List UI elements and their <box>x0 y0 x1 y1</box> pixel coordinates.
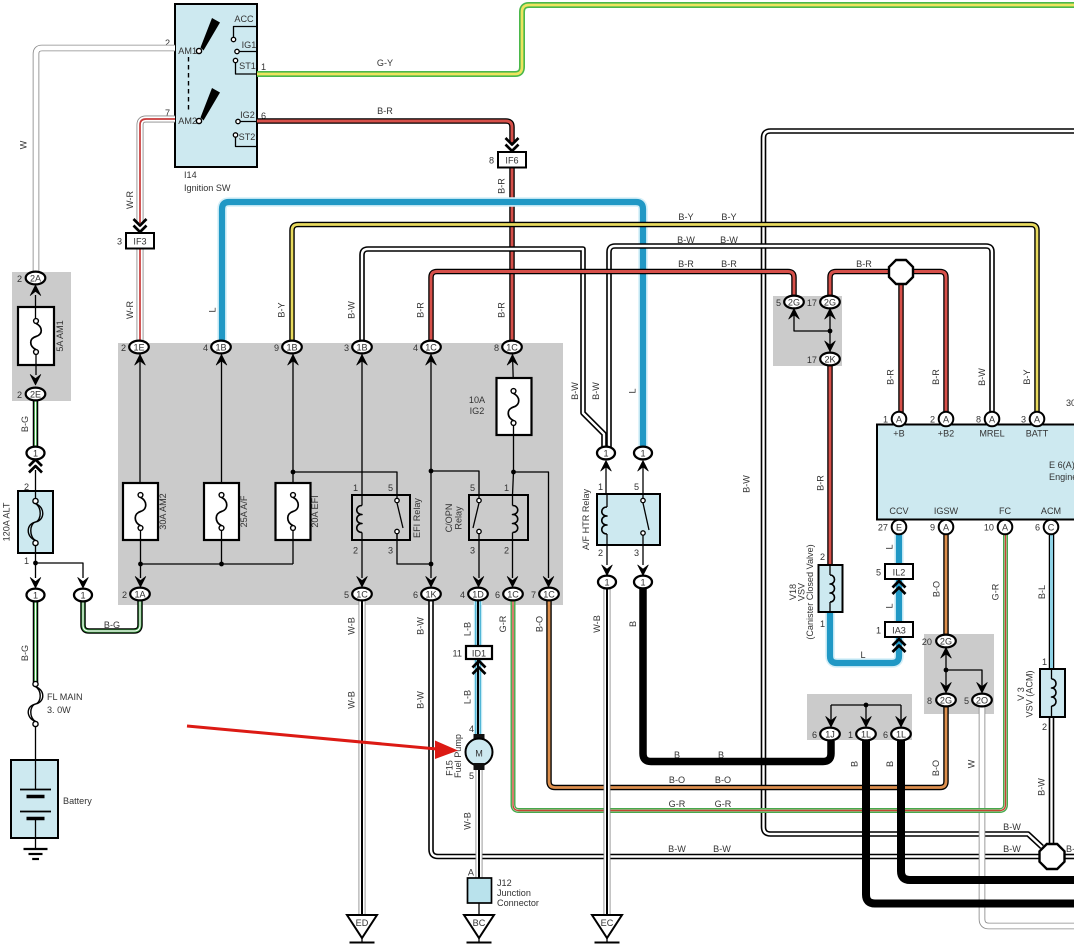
svg-text:2K: 2K <box>824 354 835 364</box>
svg-text:5A AM1: 5A AM1 <box>55 320 65 351</box>
svg-text:B-W: B-W <box>1003 822 1021 832</box>
J/B internal wire 1B to fuse 20A EFI <box>288 354 299 493</box>
svg-text:W: W <box>19 140 29 149</box>
svg-text:B-W: B-W <box>347 301 357 319</box>
svg-text:25A A/F: 25A A/F <box>239 495 249 527</box>
svg-text:EC: EC <box>601 918 614 928</box>
svg-text:3. 0W: 3. 0W <box>47 705 71 715</box>
svg-text:B-G: B-G <box>20 416 30 432</box>
svg-text:A: A <box>1002 522 1009 532</box>
svg-text:1: 1 <box>603 448 608 458</box>
svg-text:E 6(A),: E 6(A), <box>1049 460 1074 470</box>
svg-text:ST1: ST1 <box>239 61 256 71</box>
switch wiper AM2-IG2 <box>201 88 221 121</box>
wire B-O ECM IGSW to 20(2G) <box>943 534 949 635</box>
svg-text:3: 3 <box>634 548 639 558</box>
svg-text:B: B <box>674 750 680 760</box>
svg-text:30A AM2: 30A AM2 <box>158 493 168 529</box>
connector 1L pin 6 <box>883 728 911 741</box>
ECM pin FC 10(A) <box>984 520 1012 535</box>
svg-text:B-W: B-W <box>742 475 752 493</box>
connector panel 2G/2K <box>773 296 842 366</box>
svg-text:1C: 1C <box>543 589 555 599</box>
svg-text:(Canister Closed Valve): (Canister Closed Valve) <box>805 544 815 639</box>
fusible link FL MAIN 3.0W <box>28 681 82 760</box>
svg-text:B-W: B-W <box>570 382 580 400</box>
connector 1D pin 4 <box>460 588 488 601</box>
svg-text:1: 1 <box>604 577 609 587</box>
J/B internal wire 1E to fuse 30A AM2 <box>135 354 146 493</box>
svg-text:2: 2 <box>1042 722 1047 732</box>
svg-text:Engine Cont: Engine Cont <box>1049 472 1074 482</box>
svg-text:B-W: B-W <box>713 844 731 854</box>
connector 2O pin 5 <box>964 694 992 707</box>
wire B from 1(1L) to right edge <box>866 740 1074 904</box>
svg-text:BC: BC <box>473 918 486 928</box>
svg-text:5: 5 <box>470 483 475 493</box>
svg-text:ED: ED <box>356 918 369 928</box>
contact IG1 <box>235 40 257 54</box>
svg-text:B-R: B-R <box>931 369 941 385</box>
svg-text:4: 4 <box>460 590 465 600</box>
svg-text:5: 5 <box>776 298 781 308</box>
wire B-W from 6(1K) to junction octagon <box>431 600 1040 857</box>
wire B-R ignition IG2 to IF6 <box>257 121 512 143</box>
fusible link 120A ALT <box>2 482 54 566</box>
svg-text:4: 4 <box>413 343 418 353</box>
connector 1B pin 4 <box>203 341 231 354</box>
J/B internal wire EFI coil pin 1 from 3(1B) <box>357 354 368 495</box>
svg-text:2: 2 <box>820 552 825 562</box>
A/F relay pin 3 to joint 1 <box>638 545 649 576</box>
svg-text:A: A <box>896 414 903 424</box>
svg-text:A: A <box>468 868 475 878</box>
svg-text:5: 5 <box>964 696 969 706</box>
svg-text:Battery: Battery <box>63 796 92 806</box>
wire B-R noise filter to ECM +B2 <box>913 272 947 413</box>
wire W-R IF3 to 1E <box>137 248 144 341</box>
svg-text:1C: 1C <box>507 589 519 599</box>
svg-text:IL2: IL2 <box>893 568 906 578</box>
svg-text:6: 6 <box>413 590 418 600</box>
svg-text:1C: 1C <box>425 342 437 352</box>
junction connector ID1 pin 11 <box>453 646 492 674</box>
svg-text:FL MAIN: FL MAIN <box>47 692 83 702</box>
fuse 5A AM1 <box>18 295 65 385</box>
svg-text:A: A <box>943 522 950 532</box>
svg-text:B-Y: B-Y <box>277 302 287 317</box>
svg-text:3: 3 <box>1021 415 1026 425</box>
J/B internal bus <box>141 563 294 565</box>
svg-text:ACC: ACC <box>234 14 254 24</box>
svg-text:8: 8 <box>489 156 494 166</box>
joint 1 to 1A <box>74 589 92 602</box>
svg-text:6: 6 <box>883 730 888 740</box>
ECM pin +B 1(A) <box>883 412 906 427</box>
svg-text:A: A <box>989 414 996 424</box>
C/OPN relay <box>444 483 528 556</box>
svg-text:3: 3 <box>388 546 393 556</box>
joint 1 to battery <box>27 589 45 602</box>
svg-text:1C: 1C <box>506 342 518 352</box>
J/B internal branch to 7(1C) <box>514 472 554 587</box>
svg-text:B-W: B-W <box>720 235 738 245</box>
A/F relay pin 2 to joint 1 <box>602 545 613 576</box>
wire B-W from right edge via vertical x763 to lower junction <box>764 131 1074 847</box>
svg-text:W-R: W-R <box>125 191 135 209</box>
J/B internal wire 8(1C) to fuse 10A IG2 <box>507 354 518 389</box>
connector 1A pin 2 <box>122 588 150 601</box>
joint 1 above 120A ALT <box>27 447 45 460</box>
svg-text:A/F HTR Relay: A/F HTR Relay <box>581 488 591 550</box>
svg-text:1L: 1L <box>896 729 906 739</box>
svg-text:B-G: B-G <box>20 645 30 661</box>
svg-text:2: 2 <box>122 590 127 600</box>
svg-text:2: 2 <box>17 274 22 284</box>
svg-text:C: C <box>1048 522 1055 532</box>
svg-text:G-R: G-R <box>715 799 732 809</box>
connector 1L pin 1 <box>848 728 876 741</box>
wire B-W from 3(1B) to A/F relay joint <box>362 249 604 448</box>
svg-text:1: 1 <box>883 415 888 425</box>
joint connector 1 (B-G) <box>29 460 42 492</box>
wire B-G 2E to joint 1 <box>33 400 39 448</box>
svg-text:10A: 10A <box>469 395 486 405</box>
svg-text:1B: 1B <box>286 342 297 352</box>
svg-text:B: B <box>718 750 724 760</box>
svg-text:B-Y: B-Y <box>678 212 693 222</box>
connector 1E pin 2 <box>121 341 149 354</box>
svg-text:B-R: B-R <box>377 106 393 116</box>
svg-text:G-R: G-R <box>991 583 1001 600</box>
wire B-W from ECM MREL to A/F relay joint <box>609 246 992 448</box>
svg-text:G-Y: G-Y <box>377 58 393 68</box>
wire L IL2 to IA3 <box>894 578 904 622</box>
svg-text:B-O: B-O <box>932 581 942 597</box>
wire B-R 17(2G) to noise filter <box>830 272 890 297</box>
wire G-Y from ST1 along top edge <box>257 5 1074 74</box>
svg-text:7: 7 <box>531 590 536 600</box>
svg-text:120A ALT: 120A ALT <box>2 502 12 541</box>
svg-text:B-O: B-O <box>535 616 545 632</box>
joint connector 1 B <box>634 576 652 589</box>
svg-text:4: 4 <box>203 343 208 353</box>
junction connector IA3 pin 1 <box>876 622 913 652</box>
svg-text:W-B: W-B <box>592 615 602 633</box>
svg-text:+B2: +B2 <box>938 429 954 439</box>
svg-text:L-B: L-B <box>463 690 473 704</box>
svg-text:B-W: B-W <box>591 382 601 400</box>
connector 2A pin 2 <box>30 285 41 296</box>
svg-text:L: L <box>860 650 865 660</box>
J/B internal branch to C/OPN relay pin 5 <box>431 471 479 496</box>
svg-text:2G: 2G <box>940 695 952 705</box>
wire L-B from ID1 to fuel pump pin 4 <box>474 658 482 736</box>
svg-text:1: 1 <box>504 483 509 493</box>
svg-text:1: 1 <box>598 482 603 492</box>
svg-text:1: 1 <box>261 62 266 72</box>
wire L IA3 to VSV V18 pin 1 <box>830 612 899 663</box>
svg-text:W-R: W-R <box>125 301 135 319</box>
svg-text:EFI Relay: EFI Relay <box>412 498 422 538</box>
ECM pin BATT 3(A) <box>1021 412 1044 427</box>
ground below battery <box>24 838 48 859</box>
svg-text:ST2: ST2 <box>239 132 256 142</box>
fuse 30A AM2 <box>123 483 168 540</box>
svg-text:4: 4 <box>469 724 474 734</box>
wire B-Y from 9(1B) to ECM BATT <box>292 225 1037 413</box>
svg-text:B-W: B-W <box>677 235 695 245</box>
svg-text:B-O: B-O <box>715 775 731 785</box>
connector 1B pin 3 <box>344 341 372 354</box>
junction connector IF6 pin 8 <box>489 138 526 168</box>
fuse 10A IG2 <box>469 378 532 435</box>
svg-text:B: B <box>850 761 860 767</box>
contact ACC <box>231 14 257 42</box>
junction connector IL2 pin 5 <box>876 564 913 594</box>
contact IG2 pin 6 <box>236 110 266 124</box>
connector 2G pin 8 <box>927 694 956 707</box>
wire B-O from 7(1C) to 8(2G) <box>549 600 946 788</box>
svg-text:1: 1 <box>33 448 38 458</box>
J/B internal wire fuse to 1A and bus <box>135 530 146 587</box>
ECM pin MREL 8(A) <box>976 412 999 427</box>
svg-text:I14: I14 <box>184 170 197 180</box>
ECM pin CCV 27(E) <box>878 520 906 535</box>
connector 1B pin 9 <box>274 341 302 354</box>
svg-text:2A: 2A <box>30 273 42 283</box>
svg-text:B-W: B-W <box>1066 844 1074 854</box>
svg-text:3: 3 <box>470 546 475 556</box>
svg-text:1: 1 <box>33 590 38 600</box>
svg-text:A: A <box>1034 414 1041 424</box>
svg-text:B-O: B-O <box>669 775 685 785</box>
svg-text:6: 6 <box>495 590 500 600</box>
connector 2G pin 5 <box>776 296 804 309</box>
wire L CCV to IL2 <box>894 534 904 564</box>
svg-text:Relay: Relay <box>454 506 464 530</box>
svg-text:1B: 1B <box>356 342 367 352</box>
svg-text:L: L <box>885 544 895 549</box>
switch wiper AM1-ACC <box>201 18 221 51</box>
svg-text:B-W: B-W <box>416 691 426 709</box>
svg-text:B-R: B-R <box>816 475 826 491</box>
svg-text:1L: 1L <box>861 729 871 739</box>
svg-text:ACM: ACM <box>1041 506 1061 516</box>
svg-text:FC: FC <box>999 506 1012 516</box>
svg-text:L-B: L-B <box>463 622 473 636</box>
svg-text:M: M <box>475 749 483 759</box>
svg-text:1: 1 <box>24 556 29 566</box>
svg-text:B: B <box>628 621 638 627</box>
connector 1C pin 7 <box>531 588 559 601</box>
svg-text:BATT: BATT <box>1026 429 1049 439</box>
svg-text:5: 5 <box>634 482 639 492</box>
svg-text:1: 1 <box>80 590 85 600</box>
wire L from 4(1B) to A/F HTR relay joint <box>222 202 643 448</box>
svg-text:2E: 2E <box>30 389 41 399</box>
2G/2K internal links <box>789 309 836 353</box>
J/B internal wire 1B to fuse 25A A/F <box>216 354 227 493</box>
svg-text:Ignition SW: Ignition SW <box>184 183 231 193</box>
wire B from A/F relay pin 3 to 6(1J) <box>643 588 831 762</box>
svg-text:8: 8 <box>494 343 499 353</box>
svg-text:1C: 1C <box>356 589 368 599</box>
fuse 5A AM1 gray panel <box>12 272 71 401</box>
ground EC <box>592 915 622 943</box>
svg-text:1: 1 <box>820 619 825 629</box>
svg-text:B-R: B-R <box>678 259 694 269</box>
svg-text:B-W: B-W <box>1037 778 1047 796</box>
svg-text:1B: 1B <box>215 342 226 352</box>
svg-text:B-R: B-R <box>497 302 507 318</box>
connector panel 2G/2O <box>924 634 994 714</box>
contact AM1 pin 2 <box>165 38 202 56</box>
joint connector 1 L <box>634 447 652 460</box>
VSV V18 Canister Closed Valve <box>788 544 843 639</box>
svg-text:2: 2 <box>598 548 603 558</box>
svg-text:5: 5 <box>388 483 393 493</box>
svg-text:5: 5 <box>469 771 474 781</box>
svg-text:10: 10 <box>984 523 994 533</box>
svg-text:9: 9 <box>274 343 279 353</box>
svg-text:G-R: G-R <box>669 799 686 809</box>
connector 1J pin 6 <box>812 728 840 741</box>
svg-text:B-R: B-R <box>497 178 507 194</box>
svg-text:30: 30 <box>1066 398 1074 408</box>
svg-text:2G: 2G <box>824 297 836 307</box>
contact ST1 pin 1 <box>233 58 266 74</box>
svg-text:B-L: B-L <box>1037 585 1047 599</box>
junction connector IF3 pin 3 <box>117 219 154 249</box>
svg-text:IGSW: IGSW <box>934 506 959 516</box>
wire B-G joint to FL MAIN <box>33 601 39 682</box>
connector panel 1J/1L <box>807 694 912 740</box>
svg-text:1: 1 <box>353 483 358 493</box>
wire B-R 17(2K) to VSV V18 pin 2 <box>827 365 833 565</box>
wire W-B fuel pump pin 5 to J12 <box>476 769 483 879</box>
wire B from 6(1L) to right edge <box>901 740 1074 880</box>
J/B internal wire 20A to bus <box>292 530 294 564</box>
svg-text:1K: 1K <box>425 589 436 599</box>
svg-text:VSV (ACM): VSV (ACM) <box>1025 671 1035 718</box>
svg-text:IG2: IG2 <box>470 406 485 416</box>
svg-text:L: L <box>885 603 895 608</box>
node below 120A ALT <box>30 553 88 588</box>
J/B internal branch to EFI relay pin 5 <box>293 472 397 496</box>
J/B internal wire C/OPN pin 3 to 4(1D) <box>473 540 484 587</box>
connector 2K pin 17 <box>807 353 840 366</box>
svg-text:27: 27 <box>878 523 888 533</box>
svg-text:2O: 2O <box>976 695 988 705</box>
svg-text:Junction: Junction <box>497 888 531 898</box>
svg-text:6: 6 <box>812 730 817 740</box>
svg-text:B-W: B-W <box>668 844 686 854</box>
svg-text:B-W: B-W <box>416 617 426 635</box>
svg-text:B-Y: B-Y <box>1022 369 1032 384</box>
svg-text:20: 20 <box>922 637 932 647</box>
joint connector 1 B-W <box>597 447 615 460</box>
svg-text:2: 2 <box>121 343 126 353</box>
battery <box>11 760 92 838</box>
svg-text:G-R: G-R <box>498 615 508 632</box>
svg-text:B-R: B-R <box>856 259 872 269</box>
svg-text:1: 1 <box>848 730 853 740</box>
connector 1C pin 5 <box>344 588 372 601</box>
svg-text:+B: +B <box>893 429 904 439</box>
joint 1 (B-W) above A/F HTR relay <box>601 461 612 495</box>
wire W from AM1 to 2A <box>36 48 175 272</box>
wire L-B from 4(1D) to ID1 <box>474 600 482 647</box>
svg-text:3: 3 <box>344 343 349 353</box>
svg-text:C/OPN: C/OPN <box>444 504 454 533</box>
svg-text:B-O: B-O <box>931 760 941 776</box>
svg-text:6: 6 <box>1035 523 1040 533</box>
svg-text:5: 5 <box>344 590 349 600</box>
svg-text:2: 2 <box>504 546 509 556</box>
connector 1K pin 6 <box>413 588 441 601</box>
svg-text:2: 2 <box>930 415 935 425</box>
J/B internal wire EFI pin 2 to 5(1C) <box>357 540 368 587</box>
svg-text:Connector: Connector <box>497 898 539 908</box>
red pointer arrow to fuel pump <box>187 726 458 759</box>
svg-text:A: A <box>943 414 950 424</box>
connector 1C pin 8 <box>494 341 522 354</box>
svg-text:1E: 1E <box>133 342 144 352</box>
svg-text:17: 17 <box>807 298 817 308</box>
svg-text:E: E <box>896 522 902 532</box>
svg-text:1J: 1J <box>825 729 835 739</box>
junction octagon (B-W) <box>1040 844 1065 869</box>
J/B internal wire 4(1C) node to 6(1K) <box>426 354 437 587</box>
J/B internal wire EFI pin 3 to node <box>397 534 431 564</box>
svg-text:B: B <box>885 761 895 767</box>
joint 1 (L) above A/F HTR relay <box>638 461 649 495</box>
connector 2G pin 17 <box>807 296 840 309</box>
wire B-W VSV V3 pin 2 to junction octagon <box>1049 717 1055 845</box>
svg-text:AM1: AM1 <box>178 46 197 56</box>
wire B-G joint to 1A <box>83 601 140 631</box>
svg-text:J12: J12 <box>497 878 512 888</box>
svg-text:ID1: ID1 <box>472 649 486 659</box>
svg-text:11: 11 <box>453 649 462 659</box>
svg-text:IF6: IF6 <box>505 156 518 166</box>
ECM pin +B2 2(A) <box>930 412 953 427</box>
noise filter junction (B-R) <box>889 260 913 284</box>
junction connector J12 pin A <box>468 868 539 916</box>
svg-text:1A: 1A <box>134 589 146 599</box>
svg-text:CCV: CCV <box>889 506 909 516</box>
2G/2O internal links <box>941 648 988 694</box>
svg-text:L: L <box>208 307 218 312</box>
svg-text:IG2: IG2 <box>240 110 255 120</box>
wire B-W junction octagon to right edge <box>1063 854 1074 860</box>
mechanical link dashed <box>188 57 190 112</box>
fuse 20A EFI <box>276 483 321 540</box>
J/B internal wire 10A IG2 to C/OPN coil pin 1 <box>511 425 516 495</box>
EFI relay <box>352 483 422 556</box>
svg-text:B-R: B-R <box>416 302 426 318</box>
svg-text:20A EFI: 20A EFI <box>310 495 320 527</box>
svg-text:B-R: B-R <box>721 259 737 269</box>
svg-text:2G: 2G <box>788 297 800 307</box>
svg-text:IA3: IA3 <box>892 626 906 636</box>
wire W-R from AM2 to IF3 <box>140 119 175 223</box>
VSV V3 (ACM) <box>1016 657 1065 732</box>
connector 2G pin 20 <box>922 635 956 648</box>
ECM pin ACM 6(C) <box>1035 520 1058 535</box>
svg-text:W: W <box>967 759 977 768</box>
